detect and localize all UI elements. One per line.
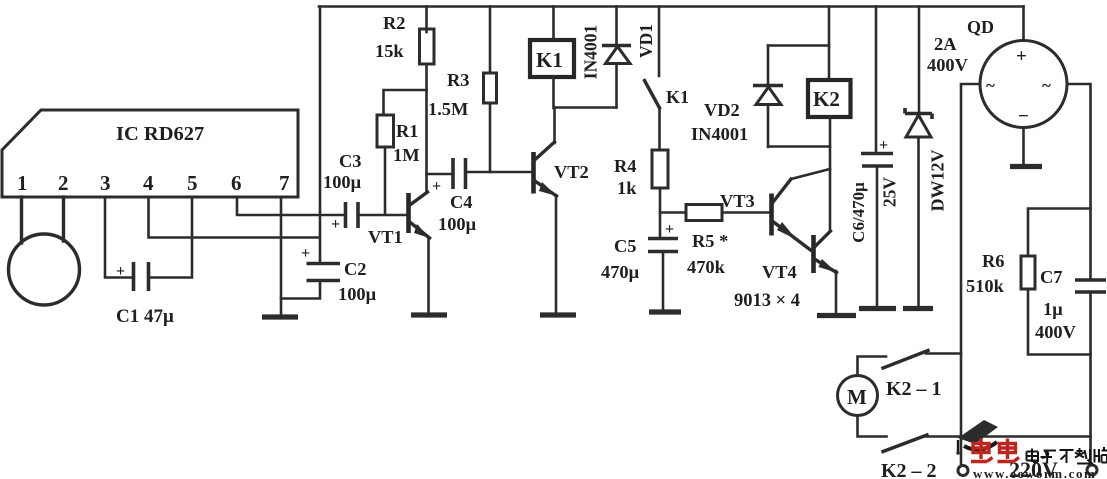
switch K2-1	[883, 351, 961, 401]
wire VT2 emitter to ground	[555, 195, 558, 313]
svg-text:VT4: VT4	[762, 262, 797, 282]
svg-text:2: 2	[58, 171, 69, 195]
watermark url	[973, 466, 1096, 479]
wire R2 to VT1 collector	[425, 64, 428, 193]
svg-text:400V: 400V	[1035, 322, 1077, 342]
svg-text:IN4001: IN4001	[581, 25, 601, 79]
svg-text:C1 47μ: C1 47μ	[116, 306, 174, 327]
top rail	[319, 5, 1024, 8]
svg-text:~: ~	[986, 76, 995, 95]
resistor R3 1.5M	[428, 7, 497, 120]
pin 5	[187, 171, 198, 195]
svg-text:25V: 25V	[880, 177, 900, 208]
watermark text dianzi xiazaizhan	[1027, 447, 1107, 464]
svg-text:R5 *: R5 *	[692, 231, 728, 251]
svg-text:VD1: VD1	[636, 24, 656, 58]
svg-text:4: 4	[143, 171, 154, 195]
watermark graduation cap	[956, 420, 998, 455]
svg-text:5: 5	[187, 171, 198, 195]
svg-text:IN4001: IN4001	[691, 124, 748, 144]
svg-text:+: +	[301, 245, 310, 262]
svg-text:IC RD627: IC RD627	[116, 123, 204, 145]
diode VD2 IN4001	[691, 46, 830, 148]
wire R5 to VT3 base	[722, 211, 770, 214]
transistor VT2	[534, 142, 589, 196]
ground C5	[649, 309, 681, 314]
svg-text:15k: 15k	[375, 41, 404, 61]
capacitor C4 100u	[432, 158, 477, 234]
svg-text:www.eeworm.com: www.eeworm.com	[973, 466, 1096, 479]
wire C1 to pin5	[150, 197, 193, 278]
svg-text:510k: 510k	[966, 276, 1005, 296]
resistor R4 1k	[614, 150, 668, 198]
wire pin7 to ground	[280, 197, 283, 315]
ground DW12V	[903, 306, 933, 311]
pin 7	[279, 171, 290, 195]
svg-text:VT1: VT1	[368, 227, 403, 247]
bridge rectifier QD	[927, 7, 1067, 128]
pin 4	[143, 171, 154, 195]
svg-text:2A: 2A	[934, 34, 957, 54]
wire QD right AC down	[1067, 84, 1091, 437]
capacitor C5 470u	[601, 221, 678, 282]
wire R3 to C4 line	[489, 103, 492, 172]
switch K2-2	[881, 435, 1091, 479]
wire K1 bottom junction	[554, 77, 617, 108]
switch K1 contact	[645, 7, 690, 151]
svg-text:C3: C3	[339, 151, 361, 171]
wire R1 to base line	[384, 147, 387, 214]
watermark bug char 1	[971, 439, 993, 462]
resistor R5 470k	[686, 205, 728, 278]
ground VT2	[540, 312, 576, 317]
diode VD1 IN4001	[581, 7, 657, 108]
wire motor top to K2-1	[858, 357, 887, 376]
svg-text:400V: 400V	[927, 55, 969, 75]
svg-text:+: +	[432, 178, 441, 195]
svg-text:VT3: VT3	[720, 191, 755, 211]
wire VT4 emitter to ground	[835, 271, 838, 314]
capacitor C2 100u	[301, 245, 377, 304]
terminal left 220V	[958, 466, 968, 476]
wire +V rail drop to C2	[319, 7, 322, 263]
svg-text:+: +	[331, 216, 340, 233]
wire VT3 collector link	[791, 169, 830, 179]
wire K2 bottom to collector rail	[829, 117, 832, 231]
wire C4 to VT2 base	[467, 171, 533, 174]
relay coil K1	[530, 7, 574, 78]
wire C2 bottom jog to pin7 wire	[281, 281, 320, 299]
svg-text:3: 3	[100, 171, 111, 195]
svg-text:K2: K2	[813, 87, 840, 111]
terminal right 220V	[1087, 465, 1097, 475]
svg-text:C6/470μ: C6/470μ	[849, 182, 868, 243]
svg-text:VT2: VT2	[554, 162, 589, 182]
svg-text:7: 7	[279, 171, 290, 195]
microphone B (sensor bulb)	[9, 197, 80, 305]
wire junction to R5	[660, 211, 686, 214]
svg-text:K1: K1	[666, 87, 689, 107]
motor M	[838, 376, 878, 416]
svg-text:+: +	[116, 263, 125, 280]
svg-text:R3: R3	[447, 70, 469, 90]
svg-text:M: M	[847, 385, 867, 409]
svg-text:R1: R1	[396, 121, 418, 141]
transistor VT1	[368, 192, 430, 247]
svg-text:K1: K1	[536, 48, 563, 72]
wire VT1 collector to C4	[427, 173, 452, 176]
zener DW12V	[905, 7, 948, 307]
svg-text:C7: C7	[1040, 267, 1062, 287]
svg-text:K2 – 2: K2 – 2	[881, 460, 937, 479]
capacitor C3 100u	[323, 151, 362, 233]
pin 1	[17, 171, 28, 195]
ground VT4	[817, 313, 856, 318]
wire pin3 to C1	[105, 197, 132, 278]
wire R6 branch bottom	[1028, 289, 1091, 355]
svg-text:1.5M: 1.5M	[428, 99, 468, 119]
ground pin7	[262, 314, 298, 319]
pin 6	[231, 171, 242, 195]
resistor R6 510k	[966, 251, 1035, 296]
wire pin4 feed	[149, 197, 320, 238]
svg-text:1μ: 1μ	[1043, 299, 1063, 319]
wire VT2 collector up	[553, 108, 556, 144]
resistor R1 1M	[377, 115, 420, 165]
wire VT1 emitter to ground	[427, 237, 430, 313]
wire QD bottom terminal	[1010, 128, 1042, 167]
label 220V	[1009, 457, 1058, 479]
svg-text:R4: R4	[614, 156, 636, 176]
svg-text:+: +	[1016, 46, 1027, 67]
svg-text:100μ: 100μ	[323, 172, 362, 192]
transistor VT4	[734, 231, 837, 311]
svg-text:100μ: 100μ	[338, 284, 377, 304]
wire C5 to ground	[662, 252, 665, 310]
svg-text:1M: 1M	[393, 145, 420, 165]
pin 3	[100, 171, 111, 195]
IC U1 RD627 body	[2, 110, 298, 197]
svg-text:K2 – 1: K2 – 1	[886, 378, 942, 400]
svg-text:~: ~	[1042, 76, 1051, 95]
svg-text:1: 1	[17, 171, 28, 195]
wire motor bottom	[858, 416, 887, 437]
wire R6 branch top	[1028, 209, 1091, 257]
svg-text:C4: C4	[450, 192, 472, 212]
resistor R2 15k	[375, 7, 434, 65]
svg-text:DW12V: DW12V	[928, 150, 948, 212]
wire C3 to VT1 base	[359, 214, 407, 217]
wire pin6 to C3	[237, 197, 344, 215]
capacitor C1 47u	[116, 262, 174, 327]
transistor VT3	[720, 179, 811, 250]
svg-text:VD2: VD2	[704, 100, 740, 120]
wire jog R2 line to R1	[384, 90, 427, 115]
watermark bug char 2	[998, 439, 1020, 462]
wire right vertical to terminal	[1089, 437, 1092, 465]
wire R4 to C5/R5 junction	[659, 188, 662, 238]
svg-text:C5: C5	[614, 236, 636, 256]
svg-text:+: +	[665, 221, 674, 238]
svg-text:470μ: 470μ	[601, 262, 640, 282]
ground C6	[859, 306, 896, 311]
svg-text:+: +	[879, 137, 888, 154]
svg-text:9013 × 4: 9013 × 4	[734, 291, 800, 311]
svg-text:QD: QD	[967, 17, 994, 37]
svg-text:R2: R2	[383, 13, 405, 33]
svg-text:R6: R6	[982, 251, 1004, 271]
svg-text:1k: 1k	[617, 178, 637, 198]
relay coil K2	[808, 7, 851, 118]
wire QD left AC down	[961, 84, 980, 466]
ground VT1	[411, 312, 447, 317]
svg-text:6: 6	[231, 171, 242, 195]
capacitor C6 470u/25V	[849, 7, 900, 307]
capacitor C7 1u/400V	[1035, 267, 1106, 342]
svg-text:−: −	[1018, 106, 1029, 127]
svg-text:100μ: 100μ	[438, 214, 477, 234]
svg-text:470k: 470k	[687, 257, 726, 277]
pin 2	[58, 171, 69, 195]
svg-text:C2: C2	[344, 259, 366, 279]
